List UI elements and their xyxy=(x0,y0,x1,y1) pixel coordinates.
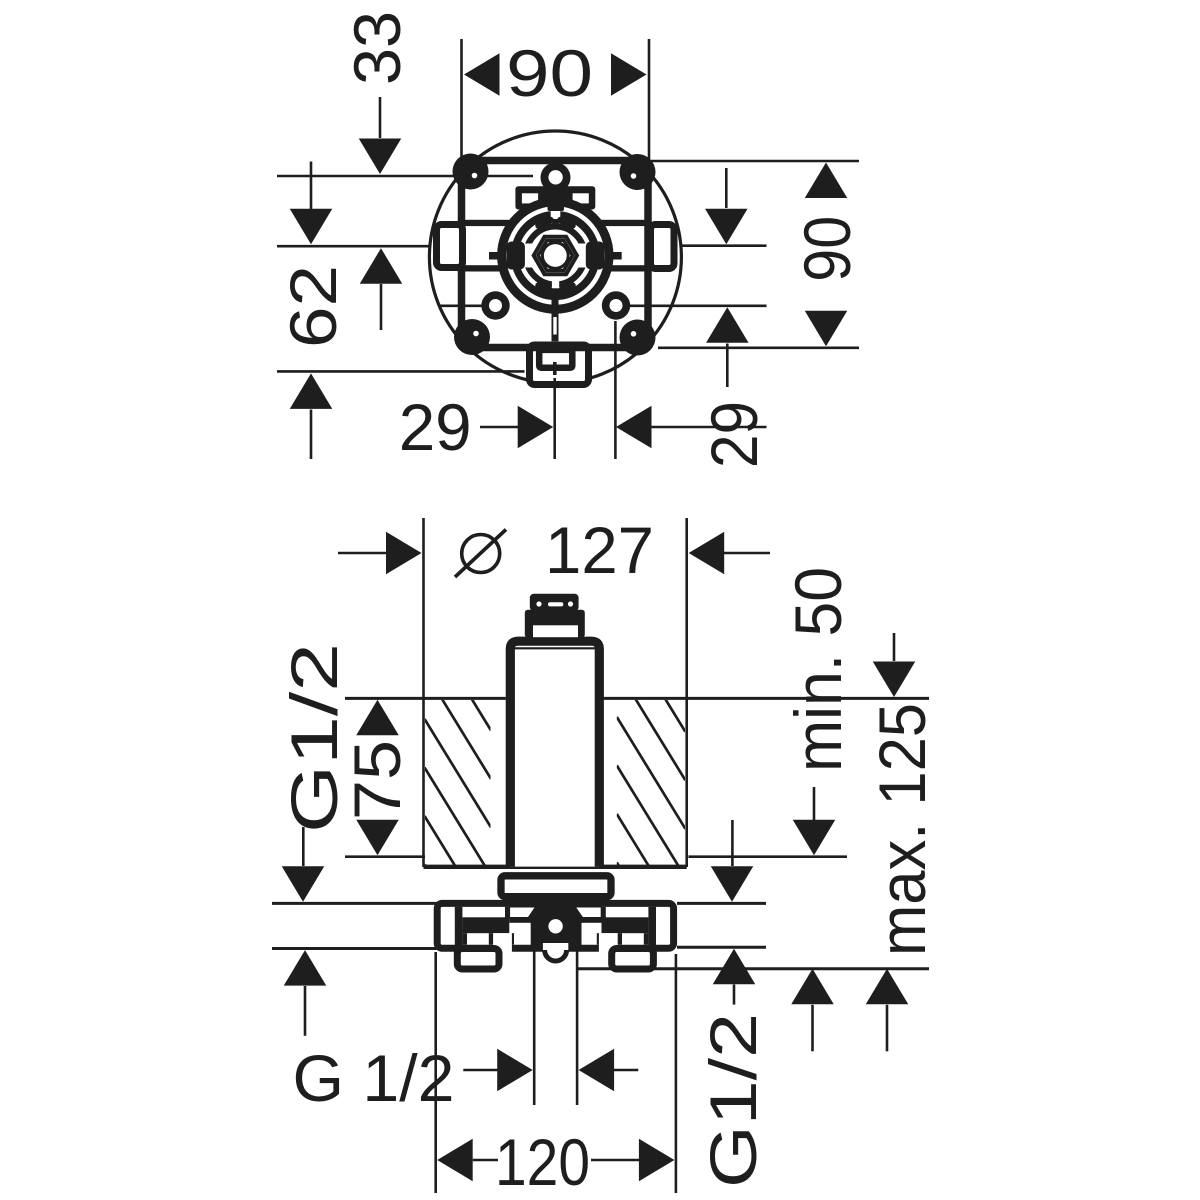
arrow up to bracket bottom xyxy=(713,949,756,985)
wall hatching left block xyxy=(425,622,492,973)
arrow down to plate bottom line xyxy=(805,311,848,347)
arrow down to min surface xyxy=(356,820,399,856)
leader above xyxy=(893,633,896,661)
ext line bracket left xyxy=(434,952,437,1193)
ext line port left xyxy=(533,945,536,1105)
ext line x=461.5 xyxy=(460,39,463,157)
bracket divider right xyxy=(648,907,656,945)
ext line washer x=615.4 xyxy=(614,321,617,459)
cartridge cap top box xyxy=(530,594,579,611)
gap through bracket floor left xyxy=(493,933,512,959)
arrow left to x=686.7 xyxy=(689,532,725,575)
base plate xyxy=(501,876,611,897)
top stem xyxy=(550,186,561,211)
arrow down to y=246 xyxy=(290,209,333,245)
line y=969 xyxy=(577,967,929,970)
bridge window left xyxy=(522,193,538,203)
arrow up to y=246 xyxy=(360,248,403,284)
top centre hole xyxy=(541,163,571,193)
arrow right to port line xyxy=(497,1049,533,1092)
min-depth surface line left xyxy=(345,855,425,858)
foot right xyxy=(612,949,654,970)
bottom stem xyxy=(552,288,559,341)
arrow down to wall top xyxy=(873,662,916,698)
centre dash in housing xyxy=(553,362,557,375)
hex nut inner xyxy=(538,241,572,271)
arrow down to bracket top xyxy=(282,866,325,902)
arrow up to bracket bottom xyxy=(284,950,327,986)
bridge window right xyxy=(573,193,589,203)
dim tail left xyxy=(338,552,390,555)
outer clamping ring xyxy=(502,202,609,309)
upper-left tab bar xyxy=(463,220,512,226)
upper-right tab bar xyxy=(598,220,648,226)
knurl nubs xyxy=(539,220,551,226)
arrow down to y=176 xyxy=(359,139,402,175)
extension line right, plate bottom edge xyxy=(658,346,859,349)
arrow up to washer line xyxy=(706,307,749,343)
dim line stub right xyxy=(651,426,767,429)
dim tail right xyxy=(721,552,770,555)
line y=903 left xyxy=(272,902,437,905)
cap vent marks xyxy=(536,601,541,606)
ring A notch south xyxy=(552,280,559,288)
svg-text:max. 125: max. 125 xyxy=(865,703,939,956)
cap white slot xyxy=(533,625,578,637)
gap through bracket floor right xyxy=(599,933,618,959)
leader below xyxy=(304,986,307,1036)
right tick lug xyxy=(605,252,622,260)
extension line left, washer centre xyxy=(439,304,483,307)
dim stub xyxy=(473,1159,498,1162)
cartridge body xyxy=(510,641,599,866)
svg-text:min. 50: min. 50 xyxy=(781,567,855,772)
clamping band ring xyxy=(515,215,596,296)
leader xyxy=(302,827,305,866)
arrow up to y=371 xyxy=(290,373,333,409)
wall bracket bar xyxy=(437,903,673,948)
right petal lug xyxy=(586,242,605,270)
foot left xyxy=(457,949,499,970)
lower-right tab bar xyxy=(598,265,648,271)
arrow down to bracket top xyxy=(711,866,754,902)
leader xyxy=(813,787,816,821)
cartridge cap collar xyxy=(525,610,585,638)
diameter slash xyxy=(455,530,506,578)
leader above arrow xyxy=(310,162,313,211)
outlet housing below plate xyxy=(530,345,589,385)
lower-left tab bar xyxy=(463,265,512,271)
wall hatching right block xyxy=(617,620,686,974)
extension line, housing bottom y=371 xyxy=(277,370,525,373)
hub screw hole xyxy=(548,919,562,933)
arrow up to mounting plane xyxy=(791,969,834,1005)
svg-text:90: 90 xyxy=(506,36,593,110)
arrow up to wall top xyxy=(356,700,399,736)
inner lip line xyxy=(515,647,596,649)
ext line right x=686.7 xyxy=(685,518,688,867)
extension line right, plate top edge xyxy=(651,160,859,163)
ext line port right xyxy=(576,945,579,1105)
angled slot left xyxy=(576,908,600,918)
keyway tab below north notch xyxy=(552,219,559,225)
leader above arrow xyxy=(725,168,728,208)
svg-text:G 1/2: G 1/2 xyxy=(293,1041,455,1115)
ext line x=649 xyxy=(648,39,651,162)
leader below arrow xyxy=(310,410,313,460)
inner ring A xyxy=(526,226,584,284)
dim stub right xyxy=(612,1069,638,1072)
wall bottom line xyxy=(424,865,687,869)
extension line left, tab centreline xyxy=(277,245,430,248)
outlet port cup G1/2 xyxy=(543,943,568,951)
centre bore xyxy=(542,243,568,269)
min-depth surface line right xyxy=(688,855,847,858)
screw top-right xyxy=(620,154,656,190)
arrow up to mounting plane xyxy=(866,969,909,1005)
svg-text:29: 29 xyxy=(697,401,771,468)
leader below arrow xyxy=(726,344,729,388)
bracket divider left xyxy=(455,907,463,945)
arrow left at x=436 xyxy=(437,1139,473,1182)
svg-text:33: 33 xyxy=(340,11,414,85)
extension line right, washer centre y=306 xyxy=(630,304,767,307)
ext line centre x=554.7 xyxy=(553,378,556,459)
arrow left of 90 xyxy=(464,53,500,96)
ext line left x=423.5 xyxy=(422,518,425,867)
band notch north xyxy=(551,210,561,219)
arrow left to washer line xyxy=(616,406,652,449)
svg-text:90: 90 xyxy=(790,216,864,282)
left fixing tab xyxy=(437,225,463,268)
line y=903 right xyxy=(677,902,766,905)
arrow up to plate top line xyxy=(805,163,848,199)
right fixing tab xyxy=(651,225,675,269)
svg-text:127: 127 xyxy=(545,513,654,587)
square mounting plate outline 90x90 xyxy=(462,161,649,348)
leader below arrow xyxy=(380,284,383,330)
wall top surface line right part xyxy=(604,697,929,700)
leader below xyxy=(811,1005,814,1052)
flange circle O127 xyxy=(429,131,681,383)
leader below xyxy=(733,985,736,1005)
line y=948 left xyxy=(272,947,437,950)
screw bottom-right xyxy=(620,320,656,356)
arrow down to min surface xyxy=(793,820,836,856)
bracket band right xyxy=(602,917,649,933)
washer right xyxy=(602,291,630,319)
ring A equator gaps xyxy=(524,244,535,268)
leader above arrow xyxy=(379,97,382,138)
leader above xyxy=(731,820,734,866)
line y=947 right xyxy=(677,946,766,949)
svg-text:62: 62 xyxy=(276,265,350,348)
dim line stub xyxy=(480,426,521,429)
diameter symbol xyxy=(462,535,500,573)
bridge block xyxy=(515,186,595,209)
ext line bracket right xyxy=(675,954,678,1193)
svg-text:G1/2: G1/2 xyxy=(696,1013,770,1188)
wall top surface line left part xyxy=(345,697,506,700)
svg-text:29: 29 xyxy=(399,390,472,464)
screw top-left xyxy=(453,154,489,190)
washer left xyxy=(481,291,509,319)
arrow right to x=423.5 xyxy=(386,532,422,575)
arrow left to port line xyxy=(579,1049,615,1092)
leader below xyxy=(886,1005,889,1052)
bracket centre hub xyxy=(509,904,601,923)
left petal lug xyxy=(506,242,525,270)
svg-text:120: 120 xyxy=(495,1125,590,1199)
dim stub xyxy=(591,1159,639,1162)
arrow right at x=676 xyxy=(639,1139,675,1182)
left tick lug xyxy=(489,252,506,260)
arrow right to centreline xyxy=(518,406,554,449)
wedge left xyxy=(565,193,576,203)
outlet housing inner square xyxy=(539,350,572,368)
arrow down to tab centreline xyxy=(705,209,748,245)
screw bottom-left xyxy=(454,319,490,355)
extension line right, tab centreline xyxy=(681,244,767,247)
dim stub xyxy=(463,1069,498,1072)
arrow right of 90 xyxy=(611,53,647,96)
hex nut outer xyxy=(534,237,577,274)
bracket band left xyxy=(462,917,509,933)
svg-text:75: 75 xyxy=(340,740,414,820)
extension line, top screw hole centre y=176 xyxy=(277,175,533,178)
